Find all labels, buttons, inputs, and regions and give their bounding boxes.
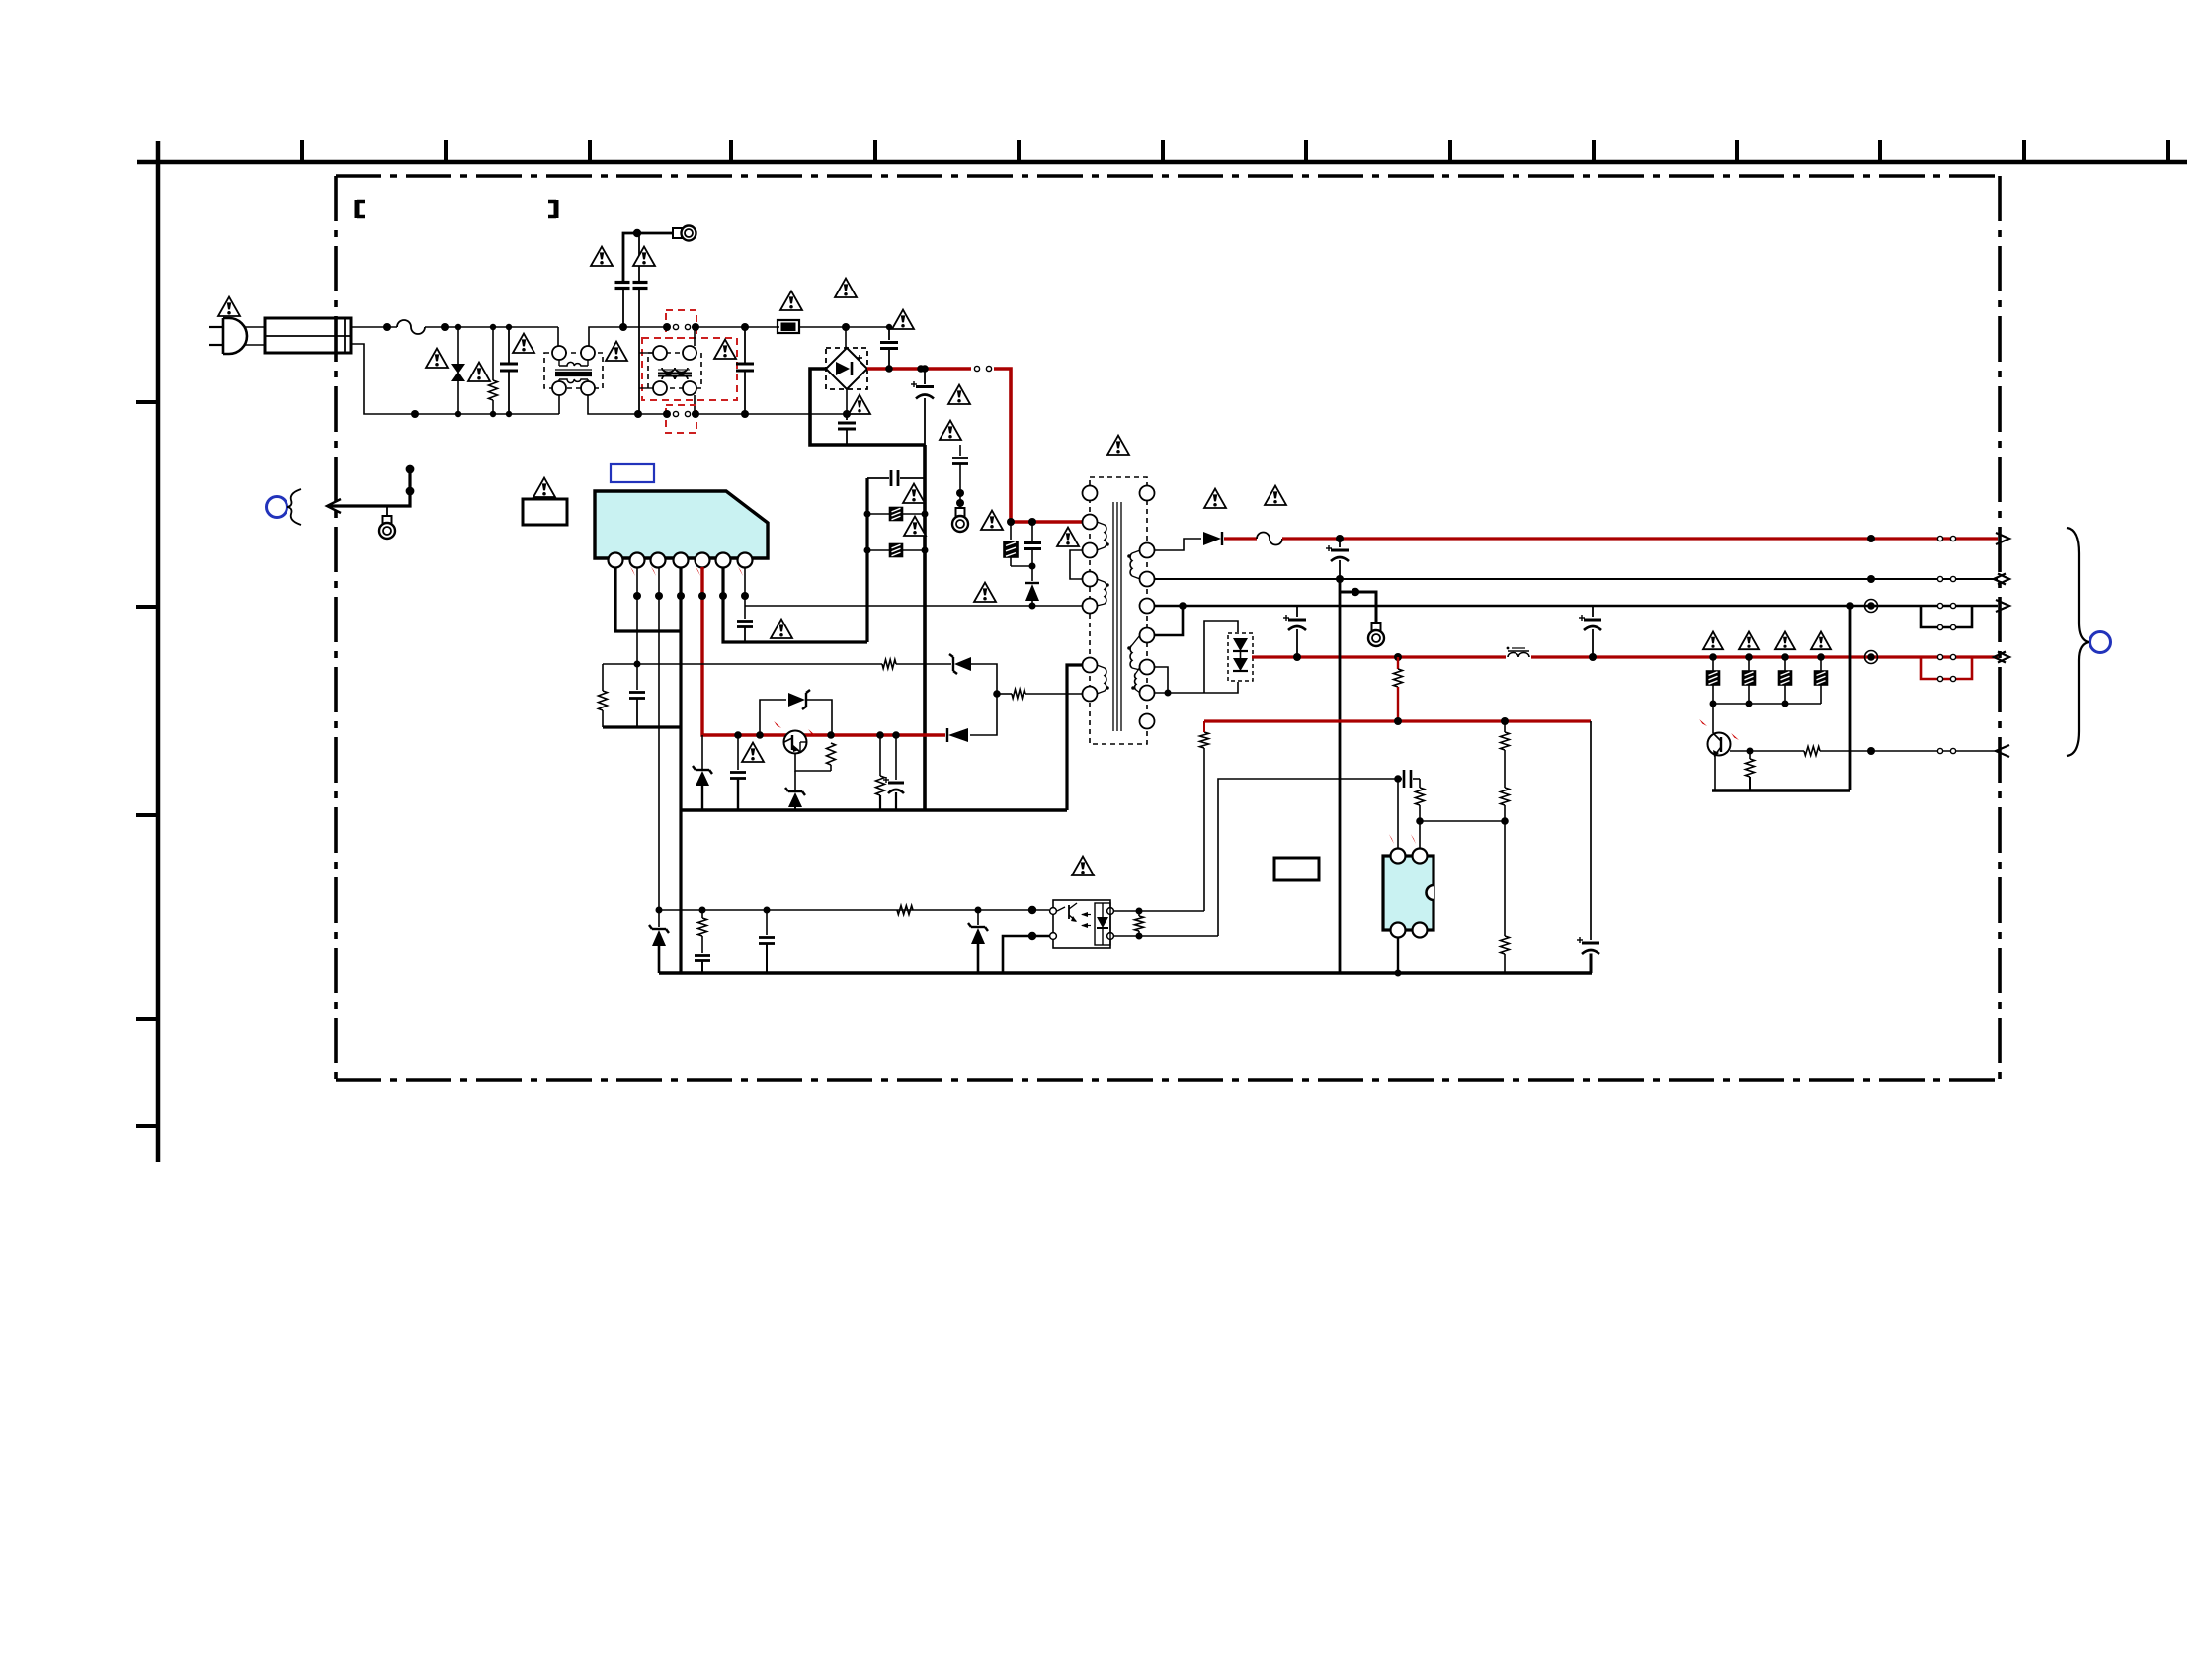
connector brace right (2067, 528, 2089, 756)
IC1 pin7 wire (741, 567, 749, 619)
Y-capacitor C902 (615, 233, 638, 331)
warning mark above transformer (1107, 436, 1129, 455)
wire L from connector to fuse (351, 323, 397, 331)
resistor R925 base series (1804, 747, 1998, 756)
rectifier diode D908 (1203, 532, 1222, 545)
wire pin to rectifier diode (1154, 539, 1201, 550)
optocoupler PC901 (1050, 900, 1114, 948)
regulator transistor Q901 (774, 721, 816, 754)
circled junction on rail 3 (1865, 600, 1878, 613)
resistor R909 to ground (876, 731, 885, 810)
red rail 5 drop to cap (1590, 721, 1592, 940)
IC1 pin3 wire long (655, 567, 663, 927)
resistor R918 opto pull-up (1200, 721, 1209, 748)
feedback divider resistor R913 (1501, 788, 1510, 825)
warning mark above part label (533, 478, 555, 497)
capacitor C917 electrolytic (1579, 606, 1601, 657)
warning marks near main cap (940, 385, 970, 440)
label box blue (611, 464, 654, 482)
secondary centre tap loop (1154, 621, 1238, 697)
warning marks above bridge (780, 279, 914, 329)
filter inductor L903 on rail 4 (1507, 647, 1529, 657)
red output rail 4 (1252, 653, 1998, 661)
clamp left vertical wire (865, 478, 868, 642)
switching regulator IC1 (595, 491, 768, 568)
transistor base network R908 (795, 731, 836, 771)
zener diode D904 (693, 735, 712, 810)
sense capacitor C908 to earth (952, 445, 968, 508)
IC1 pin2 wire (633, 567, 641, 690)
capacitor C912 (730, 731, 746, 810)
red wire diode to fuse (1224, 537, 1257, 540)
capacitor C916 electrolytic (1283, 606, 1306, 657)
resistor R901 across line (489, 324, 498, 417)
fusible resistor R902 on line (745, 320, 850, 333)
arrow rail 3 (1996, 600, 2009, 612)
right bracket glyph (548, 200, 556, 218)
black output rail 3 (1154, 605, 1998, 608)
fusible resistor R921 (1743, 657, 1756, 704)
circled junction on rail 4 (1865, 651, 1878, 664)
resistor R919 across opto (1135, 911, 1144, 936)
zener diode D911 (968, 910, 988, 973)
red HV positive wire from bridge (867, 365, 971, 373)
earth lug E904 (379, 506, 395, 539)
feedback resistor R905 (599, 664, 638, 727)
inline connector on rail 3 (1937, 603, 1955, 608)
red service box around line connector top (666, 310, 696, 338)
common-mode choke L902 (639, 327, 701, 414)
red service box around choke 2 (642, 338, 737, 400)
Q902 emitter ground (1712, 755, 1850, 790)
snubber diode D907 (1025, 566, 1039, 606)
compensation capacitor C919 (1398, 770, 1420, 788)
zener diode D910 (649, 925, 669, 973)
arrow rail 2 (1994, 574, 2009, 585)
wire bridge minus to HV return (810, 369, 925, 445)
capacitor C921 (759, 910, 775, 973)
fuse F901 (397, 320, 425, 334)
border top tick marks (302, 140, 2168, 162)
zener diode D905 over transistor (756, 690, 832, 739)
feedback line to opto (659, 906, 1049, 914)
part label box (523, 499, 567, 525)
warning mark near plug (218, 297, 240, 316)
capacitor C913 electrolytic (883, 731, 904, 810)
Q902 base wire (1730, 748, 1804, 755)
opto collector wire to rail 5 (1113, 748, 1204, 915)
warning marks resistor bank (1703, 632, 1831, 650)
connector fork left (287, 489, 301, 525)
opto emitter wire to IC2 (1113, 779, 1398, 940)
capacitor C920 series (695, 936, 710, 973)
primary ground bus (680, 808, 1067, 812)
transformer T901 (1070, 477, 1155, 744)
red HV wire to transformer (994, 369, 1085, 526)
IC1 pin4 ground wire thick (677, 567, 685, 973)
AC plug P1 (209, 318, 247, 354)
wire bridge bottom to AC neutral (843, 389, 851, 418)
warning mark below bridge (849, 395, 870, 414)
capacitor C910 on pin2 (629, 693, 645, 728)
snubber capacitor C906 over bridge diode (846, 324, 898, 369)
jumper link on rail 3 (1921, 606, 1972, 630)
fusible resistor R923 (1815, 657, 1828, 704)
local bus under IC1 (603, 725, 681, 728)
warning mark right of choke 2 (714, 340, 736, 359)
inline connector on rail 2 (1937, 576, 1955, 581)
zener diode D906 (785, 771, 805, 810)
part label box 2 (1274, 858, 1319, 880)
red jumper link on rail 4 (1921, 657, 1972, 682)
red rail 5 (1204, 717, 1591, 725)
capacitor C918 electrolytic (1577, 937, 1599, 973)
feedback divider resistor R912 (1501, 721, 1510, 788)
border top rule (137, 160, 2187, 165)
warning mark above optocoupler (1072, 857, 1094, 875)
connector circle right blue (2090, 632, 2111, 653)
chassis dash-dot boundary box (336, 176, 2000, 1080)
resistor R916 on feedback line (897, 906, 913, 915)
warning mark right of choke (606, 342, 627, 361)
IC1 pin5 red supply wire (698, 567, 945, 735)
warning mark right of IC1 (771, 620, 792, 638)
inline connector on HV wire (974, 366, 991, 371)
wire N from connector (351, 344, 559, 418)
fusible resistor R922 (1779, 657, 1792, 704)
HV return vertical thick (923, 445, 927, 811)
AC inlet connector CN901 (244, 318, 351, 353)
inline connector top (623, 323, 745, 331)
inline connector on rail 4 (1937, 654, 1955, 659)
IC2 ground wire (1395, 937, 1402, 977)
X-capacitor C904 (736, 323, 754, 418)
zener diode D902 (949, 654, 971, 674)
chassis arrow wire (327, 465, 414, 513)
resistor R907 to transformer pin (997, 690, 1083, 699)
shunt regulator IC2 (1383, 834, 1434, 937)
border left rule (156, 141, 161, 1162)
IC1 pin1 wire (615, 567, 681, 631)
clamp network cap C909 (867, 470, 925, 486)
test point arrows at IC1 pins (630, 566, 743, 576)
inline connector on +B rail (1937, 536, 1955, 541)
bridge rectifier D901 (826, 327, 867, 389)
warning mark left of choke (513, 334, 534, 353)
red output rail +B (1282, 535, 1998, 542)
black output rail 2 (1154, 575, 1998, 583)
warning marks at Y-caps (591, 247, 655, 266)
feedback divider resistor R914 (1501, 821, 1510, 973)
X-capacitor C901 (500, 324, 518, 417)
IC1 pin6 wire to clamp (719, 567, 867, 642)
transistor Q902 (1699, 704, 1739, 757)
compensation resistor R915 (1416, 779, 1425, 848)
earth lug E901 top (633, 226, 696, 241)
resistor R911 rail4 to rail5 (1394, 657, 1403, 721)
feedback line with resistor R906 (637, 660, 951, 669)
wire zener to transformer aux (970, 664, 1001, 735)
resistor R917 series (698, 910, 707, 936)
opto cathode return wire (1003, 932, 1049, 973)
warning marks near snubber (974, 511, 1079, 602)
wire IC2 to divider (1420, 820, 1505, 822)
arrow +B out (1996, 533, 2009, 544)
arrow control in (1996, 745, 2009, 757)
resistor bank common wire (1710, 701, 1822, 707)
earth lug E903 wire (1340, 588, 1376, 623)
drain wire pin7 to snubber (745, 603, 1087, 610)
diode D903 (947, 728, 968, 742)
snubber capacitor C914 (1024, 522, 1041, 570)
earth lug E902 (952, 508, 968, 532)
warning marks right of transformer (1204, 486, 1286, 508)
warning marks at clamp (903, 484, 926, 536)
dual rectifier diode D909 (1228, 633, 1253, 681)
Y-capacitor C903 (633, 235, 648, 418)
main filter capacitor C907 (911, 365, 934, 445)
earth lug E903 (1368, 623, 1384, 646)
clamp fusible resistor R903 (864, 508, 929, 521)
clamp fusible resistor R904 (864, 544, 929, 557)
IC2 ref wire (1394, 775, 1402, 848)
capacitor C905 below bridge (838, 414, 856, 445)
capacitor C915 electrolytic across +B (1326, 539, 1349, 579)
varistor VA901 (451, 324, 465, 417)
resistor R924 base-emitter (1746, 751, 1755, 790)
capacitor C911 on pin7 (737, 622, 753, 643)
warning mark near zeners (742, 743, 764, 762)
rail3 to ground-loop vertical (1846, 602, 1854, 790)
fuse F902 (1257, 533, 1282, 545)
warning marks at varistor (426, 349, 490, 381)
secondary sense vertical thick (1339, 579, 1342, 973)
fusible resistor R920 (1707, 657, 1720, 704)
connector circle left blue (267, 497, 287, 518)
inline connector on control line (1937, 748, 1955, 753)
aux winding return wire (1067, 665, 1083, 810)
secondary ground bus (659, 971, 1592, 975)
left bracket glyph (357, 200, 365, 218)
common-mode choke L901 (544, 327, 638, 414)
red service box around line connector bottom (666, 405, 696, 433)
wire pin to rail 3 jog (1154, 602, 1187, 635)
inline connector bottom (638, 410, 847, 418)
border left tick marks (136, 402, 158, 1126)
wire L fuse to filter (425, 323, 558, 331)
snubber fusible resistor R910 (1004, 522, 1032, 566)
arrow rail 4 (1994, 652, 2009, 663)
